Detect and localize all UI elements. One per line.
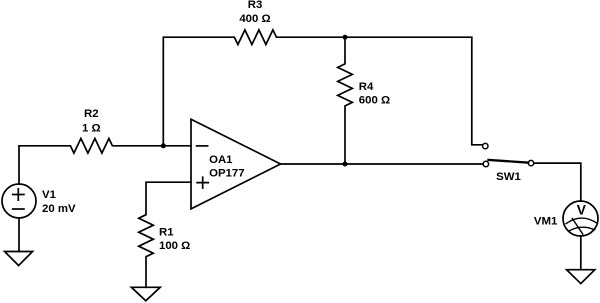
svg-text:R1: R1 bbox=[159, 226, 174, 238]
svg-text:20 mV: 20 mV bbox=[42, 203, 76, 215]
svg-text:VM1: VM1 bbox=[534, 216, 558, 228]
svg-text:OA1: OA1 bbox=[209, 154, 233, 166]
svg-text:400 Ω: 400 Ω bbox=[239, 13, 270, 25]
svg-text:600 Ω: 600 Ω bbox=[359, 95, 390, 107]
svg-text:SW1: SW1 bbox=[496, 171, 521, 183]
svg-text:V1: V1 bbox=[42, 189, 57, 201]
svg-text:OP177: OP177 bbox=[209, 168, 244, 180]
svg-text:V: V bbox=[577, 203, 587, 218]
svg-text:1 Ω: 1 Ω bbox=[82, 122, 101, 134]
svg-text:R2: R2 bbox=[84, 108, 99, 120]
svg-text:R4: R4 bbox=[359, 81, 374, 93]
svg-text:R3: R3 bbox=[248, 0, 263, 11]
svg-text:100 Ω: 100 Ω bbox=[159, 240, 190, 252]
